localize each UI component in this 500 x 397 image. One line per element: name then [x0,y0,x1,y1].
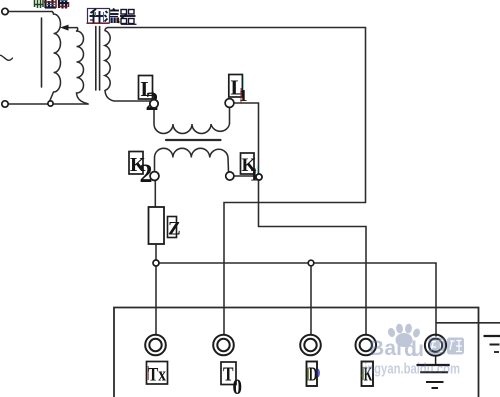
svg-text:0: 0 [233,374,243,397]
svg-text:D: D [309,364,318,386]
svg-text:du: du [404,338,424,361]
svg-text:jingyan.baidu.com: jingyan.baidu.com [360,362,460,378]
svg-text:Tx: Tx [148,365,166,386]
svg-text:1: 1 [239,86,248,105]
svg-text:Z: Z [168,219,181,240]
svg-text:Bai: Bai [369,337,402,360]
